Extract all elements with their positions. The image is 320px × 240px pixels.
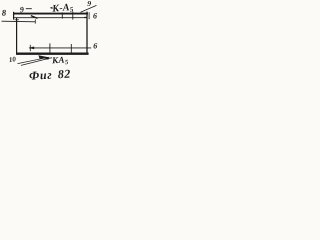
tick on left wall [15, 19, 19, 21]
secondary right wall segment [88, 12, 90, 19]
svg-text:6: 6 [93, 12, 97, 21]
arrowhead on inner flow line (points left) [28, 47, 34, 50]
weld mark under tube near x33 [31, 16, 38, 19]
tube left end cap [13, 12, 15, 20]
tick at end of leader 8 [34, 19, 36, 23]
arrow shaft of bottom К-А₅ [46, 57, 53, 60]
patent figure: sectional view of vessel, Фиг 82 [0, 0, 100, 82]
leader from label 9 (top right) [81, 5, 97, 12]
arrowhead of 10 leader (points right) [38, 55, 49, 59]
tick crossing flow line x71 [70, 44, 72, 53]
arrowhead of top К-А₅ (points left) [50, 7, 53, 9]
tube top line (thick) [13, 13, 88, 15]
arrowhead of bottom К-А₅ (points left) [45, 57, 49, 60]
left wall of vessel [16, 18, 18, 54]
tick on tube x62 [61, 12, 63, 18]
svg-text:Фиг 82: Фиг 82 [29, 67, 72, 82]
wire: leader from 10 lower stroke [21, 58, 49, 65]
dash leader from label 9 (top left) [26, 8, 32, 10]
wire: leader from 10 upper stroke [18, 57, 50, 63]
tube bottom line [14, 17, 87, 19]
bottom wall (thick) [16, 53, 89, 55]
inner bottom flow line [29, 47, 91, 49]
svg-text:9: 9 [87, 0, 91, 8]
tick on tube x73 [72, 12, 74, 20]
svg-text:6: 6 [93, 41, 97, 50]
wire: leader from label 8 [2, 20, 36, 23]
right wall of vessel [86, 12, 88, 54]
tick on right wall [84, 16, 87, 18]
tick crossing flow line x50 [49, 43, 51, 53]
tick crossing flow line x30 [29, 45, 31, 51]
